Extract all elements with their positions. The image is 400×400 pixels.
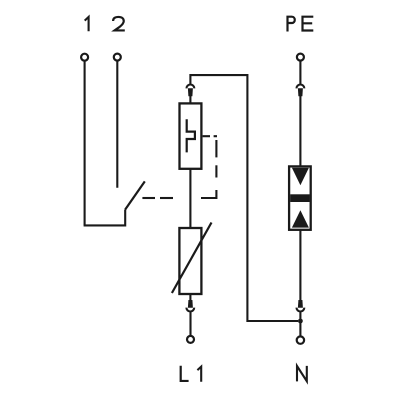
thermal disconnector box	[180, 103, 202, 168]
terminal label 2	[113, 17, 125, 31]
varistor diagonal stroke	[172, 223, 212, 294]
plug-in contact L1 (pin)	[188, 300, 193, 308]
gas discharge tube middle electrode band	[290, 194, 309, 202]
disconnector step symbol	[187, 119, 195, 152]
dashed mechanical linkage horizontal dash a	[203, 135, 210, 137]
switch contact blade	[125, 181, 145, 209]
junction node	[298, 319, 303, 324]
terminal label N	[297, 366, 307, 382]
dashed mechanical linkage corner dash b	[214, 135, 217, 137]
dashed mechanical linkage dash g	[142, 197, 155, 199]
terminal label 1	[85, 17, 89, 31]
plug-in contact PE (pin)	[298, 88, 303, 96]
wire varistor to plug pin	[189, 294, 191, 301]
dashed mechanical linkage vertical dash c	[215, 140, 217, 157]
plug-in contact N (dome)	[297, 308, 305, 312]
wire top corner to right bus	[190, 75, 298, 321]
plug-in contact top (dome)	[187, 85, 195, 89]
terminal label PE	[288, 17, 314, 32]
wire disconnector to varistor	[189, 169, 191, 228]
wire PE to gas discharge tube	[299, 95, 301, 166]
gas discharge tube box	[289, 166, 311, 229]
plug-in contact N (pin)	[298, 300, 303, 308]
terminal 1 circle	[81, 54, 88, 61]
plug-in contact L1 (dome)	[186, 308, 194, 312]
wire pin to disconnector box	[189, 95, 191, 103]
wire PE terminal down	[299, 61, 301, 85]
wire to terminal L1	[189, 312, 191, 336]
terminal 2 circle	[114, 54, 121, 61]
varistor box	[179, 228, 201, 294]
gas discharge tube top electrode triangle	[292, 168, 309, 186]
dashed mechanical linkage corner dash e	[201, 190, 216, 198]
plug-in contact PE (dome)	[297, 85, 305, 89]
dashed mechanical linkage vertical dash d	[215, 165, 217, 177]
wire gas discharge tube down	[299, 230, 301, 301]
wire from terminal 2 down (fixed contact)	[116, 61, 118, 188]
terminal label L1	[181, 366, 202, 382]
dashed mechanical linkage dash f	[160, 197, 173, 199]
plug-in contact top (pin)	[188, 88, 193, 96]
terminal PE circle	[297, 54, 304, 61]
wire from terminal 1 down	[84, 61, 86, 225]
terminal L1 circle	[187, 336, 194, 343]
wire bottom horizontal to switch hinge	[84, 210, 126, 226]
gas discharge tube bottom electrode triangle	[292, 210, 309, 227]
terminal N circle	[297, 336, 304, 343]
wire to terminal N	[299, 312, 301, 337]
